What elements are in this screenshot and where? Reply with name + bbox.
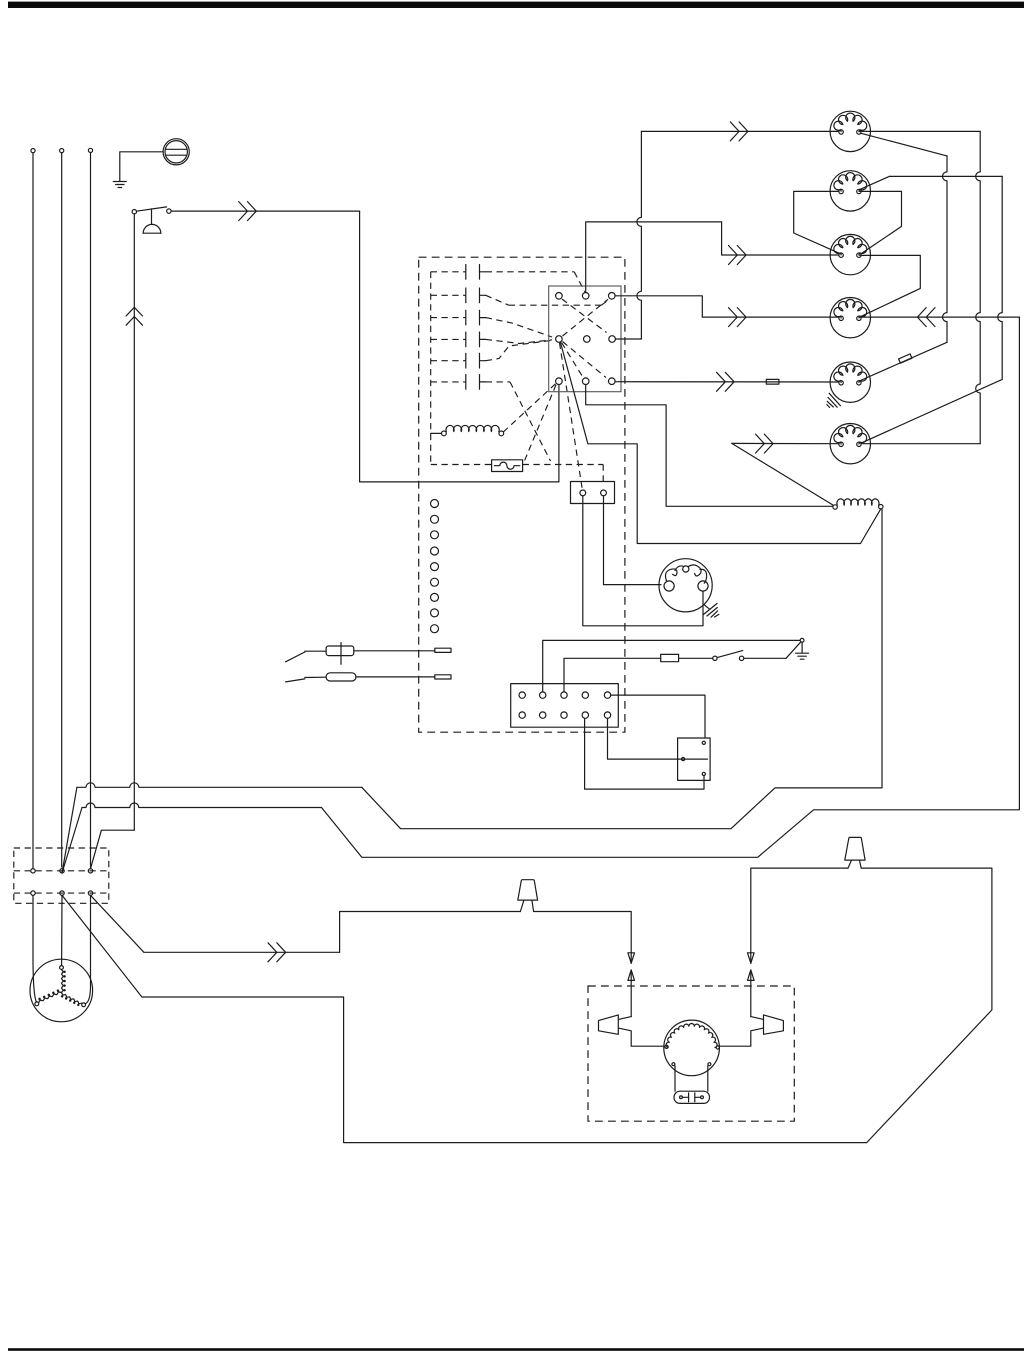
hatch ground E5 (827, 393, 841, 407)
dashed link F2a (563, 299, 609, 336)
wire E1 right to bus (860, 130, 980, 132)
dashed link fuse to connector (523, 465, 604, 482)
cap plug P2 (845, 837, 865, 868)
wire thermostat 1 (543, 638, 804, 691)
lamp connector J3 (571, 482, 615, 504)
connector chevron CH5 (729, 308, 747, 327)
wire J1 mid-right to element1 feed (615, 131, 838, 339)
indicator contacts column (431, 500, 439, 633)
wire E5 diag (859, 342, 947, 381)
wire receptacle to ground (120, 152, 163, 182)
dashed link F4a (562, 343, 584, 378)
spark module SM1 (659, 559, 712, 612)
surface element E1 (830, 111, 870, 151)
wire TB1-2 to motor (61, 895, 63, 965)
selector switch contacts (431, 265, 486, 464)
cap plug P1 (518, 880, 538, 912)
wire W2 (62, 868, 992, 1143)
wire J3 left to spark module (583, 496, 703, 626)
wire J2 r2c5 to relay (608, 718, 708, 759)
dashed link to fuse (431, 464, 492, 466)
wire buzzer to terminal (91, 830, 135, 869)
wire J1 top-right to element4 feed (615, 296, 838, 317)
hatch ground SM1 (703, 604, 719, 618)
vertical bus V947 (943, 156, 948, 342)
bake unit box (588, 986, 794, 1121)
contact line row6 (486, 382, 551, 461)
contact line row5 (486, 341, 551, 361)
connector chevron CH6 (730, 122, 748, 141)
connector chevron CH7 (717, 372, 735, 391)
supply line L2 (60, 149, 64, 868)
connector chevron CH3 (268, 943, 286, 962)
wire J3 right to spark module (604, 496, 662, 585)
dashed link F3a (563, 342, 607, 378)
contact line row3 (486, 318, 552, 337)
buzzer (143, 209, 161, 233)
fuse link FL2 (899, 354, 912, 363)
igniter nozzle N1 (599, 1015, 619, 1034)
wire to selector common (360, 211, 559, 482)
wire J1 bottom-middle to coil L3 (586, 385, 833, 507)
connector chevron CH9 (756, 434, 774, 453)
arrow down A1 (628, 952, 635, 963)
contact line row4 (486, 339, 552, 343)
switch S2 (713, 651, 744, 661)
wire switch to node (744, 642, 801, 659)
wire W1 (91, 895, 632, 952)
dashed link F6a (524, 385, 556, 462)
dashed link F5a (560, 343, 583, 490)
wire E2 right loop (860, 191, 902, 253)
igniter nozzle N2 (764, 1015, 784, 1034)
control box (dashed) (419, 257, 625, 732)
terminal block TB1 (14, 848, 109, 903)
ground G1 (113, 182, 126, 188)
bus wire B (62, 317, 1019, 873)
probe PR2 (286, 673, 451, 682)
wire buzzer line down (133, 214, 135, 830)
wire J2 r1c5 to relay (611, 695, 705, 738)
connector chevron CH4 (729, 246, 747, 265)
blower motor B1 (664, 1020, 720, 1076)
motor M1 (3-phase) (30, 959, 93, 1022)
surface element E5 (830, 362, 870, 402)
contact line row2 (486, 295, 609, 305)
relay coil L4 (431, 425, 504, 435)
surface element E3 (830, 234, 870, 274)
surface element E6 (830, 424, 870, 464)
fuse link FL1 (766, 379, 779, 384)
arrow down A3 (748, 952, 755, 963)
wire TB1-3 to motor (85, 895, 90, 1003)
wire E4 right bus (860, 316, 1020, 318)
oven connector J1 (549, 286, 621, 392)
surface element E2 (830, 171, 870, 211)
dashed link F1a (562, 299, 607, 333)
arrow up A2 (628, 970, 635, 981)
bus wire A (62, 509, 882, 873)
wire J1 bottom-right to element5 feed (615, 381, 838, 383)
wire E1 diag (861, 133, 948, 156)
relay K1 (678, 738, 711, 780)
capacitor C1 (674, 1091, 710, 1103)
receptacle (163, 139, 189, 165)
surface element E4 (830, 298, 870, 338)
dashed link F7a (504, 384, 556, 432)
range connector J2 (511, 684, 619, 728)
wire L3 right to J-loop (561, 343, 881, 544)
wire igniter left lead (619, 981, 664, 1046)
wire E6 left (732, 443, 839, 505)
connector chevron CH2 up (126, 307, 142, 325)
wire switch to node (171, 210, 360, 212)
probe PR1 (286, 643, 451, 665)
wire thermostat 2 (564, 658, 661, 692)
inductor L3 (833, 499, 883, 509)
wire E2 left loop (794, 191, 840, 253)
wire fuse to switch (679, 657, 713, 659)
vertical bus V980 (862, 131, 981, 443)
connector chevron CH1 (239, 202, 257, 221)
wire TB1-1 to motor (33, 895, 36, 1002)
connector chevron CH8 left (917, 308, 935, 327)
contact line row1 (486, 272, 585, 292)
wire J2 r2c4 to relay (585, 718, 704, 789)
wire blower to capacitor (675, 1066, 708, 1091)
wire igniter right lead (720, 981, 763, 1046)
wire E3 right loop (860, 255, 921, 316)
wire E2 to crossbus (861, 176, 1003, 443)
supply line L1 (31, 149, 35, 869)
wire J1 top-middle to element3 feed (586, 222, 839, 293)
switch S1 (132, 207, 171, 214)
fuse F1 (492, 460, 523, 472)
supply line L3 (88, 148, 92, 867)
fuse F2 (661, 654, 679, 661)
ground G2 (796, 642, 809, 659)
arrow up A4 (748, 970, 755, 981)
